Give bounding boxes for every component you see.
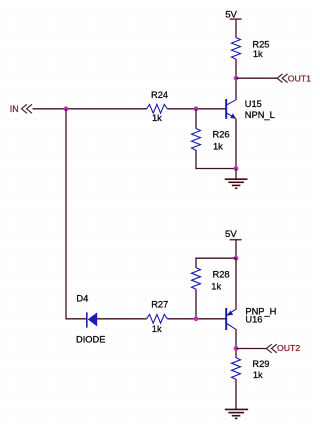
wire R28 to base row xyxy=(195,289,197,319)
resistor R29 xyxy=(232,358,241,380)
svg-text:1k: 1k xyxy=(152,113,162,123)
svg-text:R29: R29 xyxy=(252,359,269,369)
svg-text:R27: R27 xyxy=(151,300,168,310)
wire node to R26 xyxy=(195,109,197,129)
power 5V (bottom) xyxy=(225,229,242,240)
node junction OUT1 xyxy=(234,76,239,81)
wire left rail down xyxy=(66,109,86,319)
resistor R26 xyxy=(192,129,201,151)
svg-text:R25: R25 xyxy=(252,39,269,49)
wire emitter U15 down xyxy=(235,119,237,169)
transistor U15 NPN xyxy=(226,99,275,120)
svg-text:IN: IN xyxy=(10,104,19,114)
port IN xyxy=(10,104,32,114)
port OUT2 xyxy=(266,343,300,353)
wire R26 to ground rail xyxy=(196,150,236,169)
svg-text:1k: 1k xyxy=(253,370,263,380)
wire emitter U16 to 5V junction xyxy=(235,258,237,310)
svg-text:U16: U16 xyxy=(245,315,262,325)
resistor R25 xyxy=(232,38,241,60)
node junction R28/base xyxy=(194,316,199,321)
wire to port OUT2 xyxy=(236,348,266,350)
wire 5V top to R25 xyxy=(235,20,237,38)
wire R24 to base of U15 xyxy=(167,108,225,110)
svg-text:1k: 1k xyxy=(253,49,263,59)
svg-text:1k: 1k xyxy=(211,281,221,291)
svg-text:D4: D4 xyxy=(76,294,88,304)
node junction base/R26 xyxy=(194,106,199,111)
svg-text:R26: R26 xyxy=(213,130,230,140)
wire R27 to base of U16 xyxy=(167,318,225,320)
svg-text:R28: R28 xyxy=(213,269,230,279)
wire R25 to collector of U15 xyxy=(235,59,237,100)
resistor R28 xyxy=(192,268,201,290)
diode D4 xyxy=(76,294,105,345)
wire to port OUT1 xyxy=(236,77,277,79)
wire collector U16 down xyxy=(235,329,237,358)
svg-text:1k: 1k xyxy=(152,324,162,334)
node junction IN column xyxy=(64,106,69,111)
svg-text:OUT2: OUT2 xyxy=(277,343,300,353)
node junction OUT2 xyxy=(234,346,239,351)
svg-text:OUT1: OUT1 xyxy=(288,73,311,83)
wire junction to R28 xyxy=(196,258,236,268)
resistor R24 xyxy=(147,104,168,113)
transistor U16 PNP xyxy=(226,306,276,330)
svg-text:1k: 1k xyxy=(213,141,223,151)
port OUT1 xyxy=(277,73,311,83)
svg-text:5V: 5V xyxy=(225,229,237,240)
wire 5V2 down xyxy=(235,240,237,258)
svg-text:DIODE: DIODE xyxy=(76,334,105,344)
svg-text:U15: U15 xyxy=(245,99,262,109)
wire diode to R27 xyxy=(97,318,147,320)
wire IN to R24 xyxy=(33,108,147,110)
ground GND2 xyxy=(225,409,248,418)
ground GND1 xyxy=(225,169,248,189)
resistor R27 xyxy=(147,314,168,323)
node junction emitter/ground xyxy=(234,166,239,171)
wire R29 to ground xyxy=(235,379,237,409)
svg-text:R24: R24 xyxy=(151,90,168,100)
node junction 5V2 xyxy=(234,256,239,261)
power 5V (top) xyxy=(225,10,241,21)
svg-text:NPN_L: NPN_L xyxy=(245,110,275,120)
